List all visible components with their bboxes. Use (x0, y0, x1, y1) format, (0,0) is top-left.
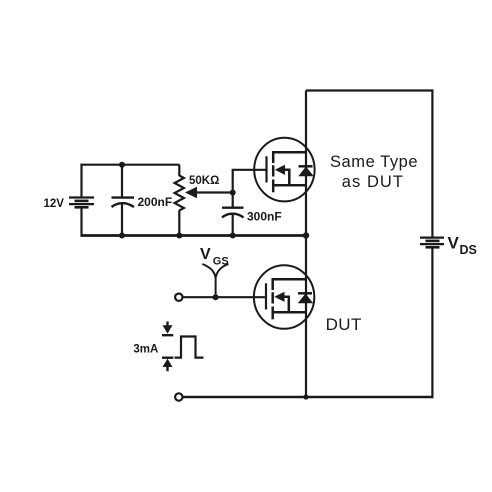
junction node bottom of potentiometer (176, 233, 182, 239)
probe VGS (202, 264, 228, 297)
wire right vertical lower (431, 247, 433, 398)
junction node bottom of 300nF (230, 233, 236, 239)
pulse waveform (175, 337, 204, 358)
wire left battery branch lower (80, 207, 82, 237)
wire 300nF lower (232, 214, 234, 237)
wire gate node vertical upper (233, 170, 267, 208)
potentiometer wiper arrow (185, 187, 233, 198)
battery 12V (69, 198, 94, 208)
wire 200nF lower (121, 203, 123, 236)
label Same Type as DUT (330, 153, 418, 191)
svg-text:GS: GS (213, 255, 229, 267)
battery VDS (420, 238, 444, 248)
label VDS (448, 234, 477, 258)
junction node wiper (230, 190, 236, 196)
wire gate input (183, 296, 267, 298)
MOSFET Q2 DUT (254, 265, 314, 329)
junction node VGS probe (213, 294, 219, 300)
wire left battery branch upper (80, 164, 82, 198)
wire main drain-source vertical line (305, 91, 307, 398)
svg-text:3mA: 3mA (133, 344, 158, 356)
wire 200nF upper (121, 165, 123, 198)
annotation 3mA up arrow (162, 358, 173, 372)
svg-text:DS: DS (460, 243, 477, 257)
wire top rail (306, 89, 432, 91)
capacitor C2 300nF (222, 208, 244, 218)
svg-text:50KΩ: 50KΩ (189, 175, 219, 187)
wire bottom rail (183, 396, 433, 398)
svg-text:as DUT: as DUT (342, 173, 404, 191)
junction node middle rail / drain line (303, 232, 309, 238)
svg-text:Same Type: Same Type (330, 153, 418, 171)
svg-text:300nF: 300nF (247, 210, 282, 224)
label VGS (200, 246, 229, 267)
annotation 3mA down arrow (162, 322, 173, 336)
svg-text:V: V (448, 234, 460, 253)
capacitor C1 200nF (112, 198, 135, 207)
wire top-left rail (82, 164, 180, 166)
svg-text:12V: 12V (44, 198, 65, 210)
wire middle rail (81, 234, 307, 237)
svg-text:DUT: DUT (326, 315, 362, 334)
svg-text:200nF: 200nF (138, 195, 173, 209)
junction node source / bottom rail (303, 394, 308, 399)
junction node top of 200nF (119, 162, 125, 168)
terminal bottom open circle (175, 393, 182, 400)
MOSFET Q1 Same Type as DUT (254, 138, 314, 202)
potentiometer R1 50KOhm (175, 165, 184, 237)
svg-text:V: V (200, 246, 211, 263)
wire right vertical upper (431, 89, 433, 237)
terminal gate input open circle (175, 294, 182, 301)
junction node bottom of 200nF (119, 233, 125, 239)
